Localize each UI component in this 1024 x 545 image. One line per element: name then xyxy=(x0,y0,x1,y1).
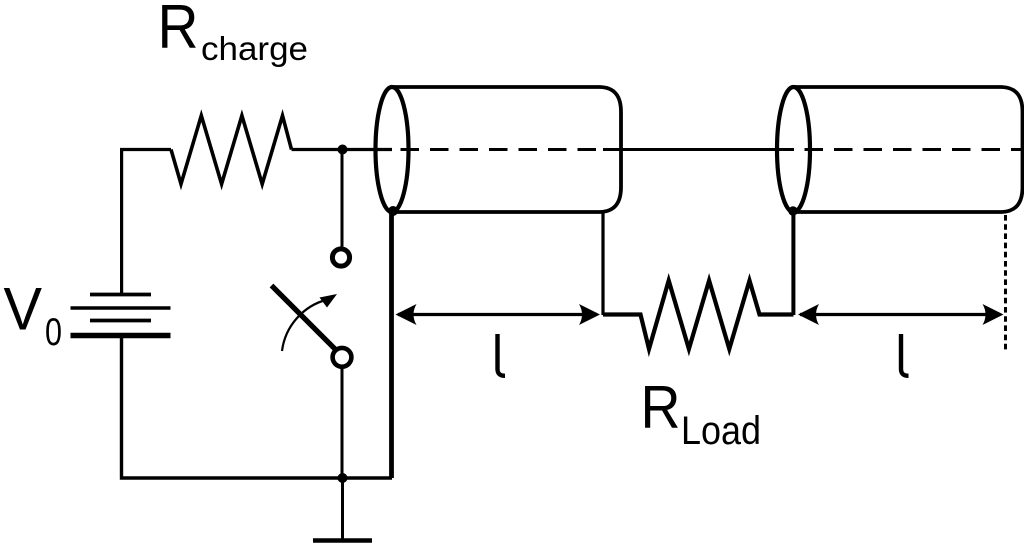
svg-text:0: 0 xyxy=(45,311,62,354)
svg-text:charge: charge xyxy=(201,31,308,68)
svg-text:Load: Load xyxy=(681,409,761,453)
svg-text:R: R xyxy=(641,374,681,441)
svg-text:R: R xyxy=(158,0,199,62)
svg-text:V: V xyxy=(4,275,43,343)
